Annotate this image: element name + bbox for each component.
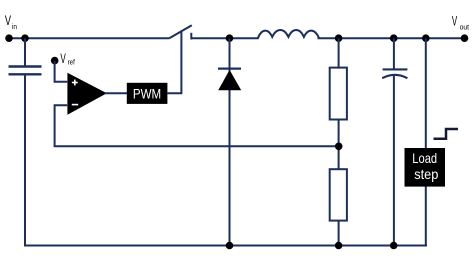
inductor L1 [258,30,320,39]
wire between resistors [338,120,340,170]
svg-text:V: V [452,14,458,29]
node Vin terminal [5,34,13,42]
node feedback junction [335,143,343,151]
node diode junction top [226,34,234,42]
node Vref dot [51,57,59,65]
wire output cap branch lower [393,75,395,246]
wire top rail left segment [9,37,169,39]
wire output cap branch upper [393,38,395,69]
svg-text:PWM: PWM [133,86,161,101]
node load junction top [422,34,430,42]
node cap bottom junction [390,242,398,250]
load step block [405,148,446,187]
label Vin [5,12,17,31]
wire R2 to bottom rail [338,221,340,246]
node Vout terminal [461,34,469,42]
svg-text:in: in [12,24,17,32]
node capacitor junction top [390,34,398,42]
resistor R2 lower [330,169,347,220]
resistor R1 upper [330,68,347,120]
op-amp plus sign [72,80,78,86]
svg-text:out: out [460,23,469,31]
wire load branch [425,39,427,246]
op-amp minus sign [72,104,78,106]
node diode bottom junction [226,242,234,250]
wire input cap branch lower [24,74,26,245]
node divider junction top [335,34,343,42]
node input junction [21,34,29,42]
wire PWM output to switch control [167,30,181,93]
svg-text:Load: Load [412,150,437,167]
svg-text:step: step [414,166,438,182]
PWM block [127,83,168,104]
svg-text:ref: ref [68,59,75,67]
wire top rail middle segment [191,37,258,39]
op-amp U1 [67,73,106,115]
label Vout [452,14,469,31]
capacitor C2 top plate [383,68,408,70]
capacitor C2 curved plate [382,75,407,78]
svg-text:V: V [60,52,66,67]
wire top rail to R1 [338,38,340,68]
switch S1 right contact stub [190,33,192,40]
wire top rail right segment [318,37,465,39]
wire op-amp output to PWM [105,92,128,94]
capacitor C1 plates [9,65,42,67]
diode D1 cathode bar [218,67,241,69]
wire Vref to op-amp plus input [55,61,68,82]
switch S1 blade [169,25,192,38]
label Vref [60,52,75,67]
svg-text:V: V [5,12,11,29]
step waveform icon [434,129,459,139]
wire feedback from divider node to op-amp minus input [55,105,339,146]
wire input cap branch upper [24,39,26,67]
diode D1 branch wire [229,39,231,246]
node R2 bottom junction [335,242,343,250]
diode D1 triangle [218,70,241,90]
wire bottom rail [24,245,427,247]
